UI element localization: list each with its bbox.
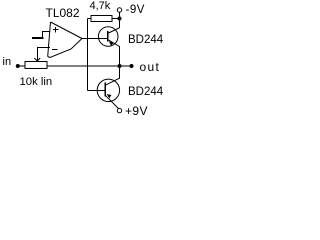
op-amp minus input symbol [52, 48, 58, 50]
label 10k lin [20, 76, 53, 88]
wire Q2 base horizontal [88, 89, 106, 91]
wire op-amp output to base rail [82, 38, 108, 40]
transistor Q2 emitter lead [105, 95, 118, 108]
node in terminal dot [16, 64, 20, 68]
wire R1 left lead [88, 18, 92, 20]
transistor Q1 BD244 circle [98, 27, 118, 47]
label TL082 [46, 6, 80, 20]
wire R1 right lead [112, 18, 120, 20]
terminal -9V circle [117, 8, 121, 12]
wire node to -9V terminal [119, 12, 121, 18]
label 4,7k [90, 0, 111, 12]
terminal +9V circle [117, 108, 121, 112]
wire noninverting input to ground [43, 31, 51, 37]
wire out line [47, 65, 132, 67]
transistor Q2 base bar [104, 83, 106, 97]
label -9V [126, 4, 145, 16]
wire center vertical R1 to Q2 base [87, 19, 89, 91]
op-amp U1 triangle [48, 22, 82, 58]
transistor Q2 BD244 circle [97, 79, 119, 101]
node junction dot at R1 and -9V [118, 17, 122, 21]
wiper arrow of potentiometer P1 [34, 58, 40, 61]
transistor Q1 collector lead [108, 17, 120, 34]
wire inverting input to wiper [37, 47, 50, 60]
potentiometer P1 10k body [25, 61, 47, 68]
wire in to potentiometer [18, 65, 25, 67]
transistor Q2 emitter arrow (PNP) [107, 94, 112, 98]
node junction dot out line [118, 64, 122, 68]
resistor R1 4.7k body [91, 15, 112, 21]
op-amp plus input symbol [53, 27, 59, 33]
transistor Q1 emitter arrow (PNP) [109, 41, 114, 45]
label +9V [125, 104, 148, 118]
label out [140, 60, 161, 74]
transistor Q1 base bar [107, 31, 109, 41]
label BD244 Q2 [128, 86, 163, 98]
ground [32, 37, 43, 39]
transistor Q1 emitter lead [108, 40, 120, 67]
label BD244 Q1 [128, 34, 163, 46]
node out terminal dot [130, 64, 134, 68]
label in [3, 56, 12, 68]
transistor Q2 collector lead [105, 66, 119, 85]
